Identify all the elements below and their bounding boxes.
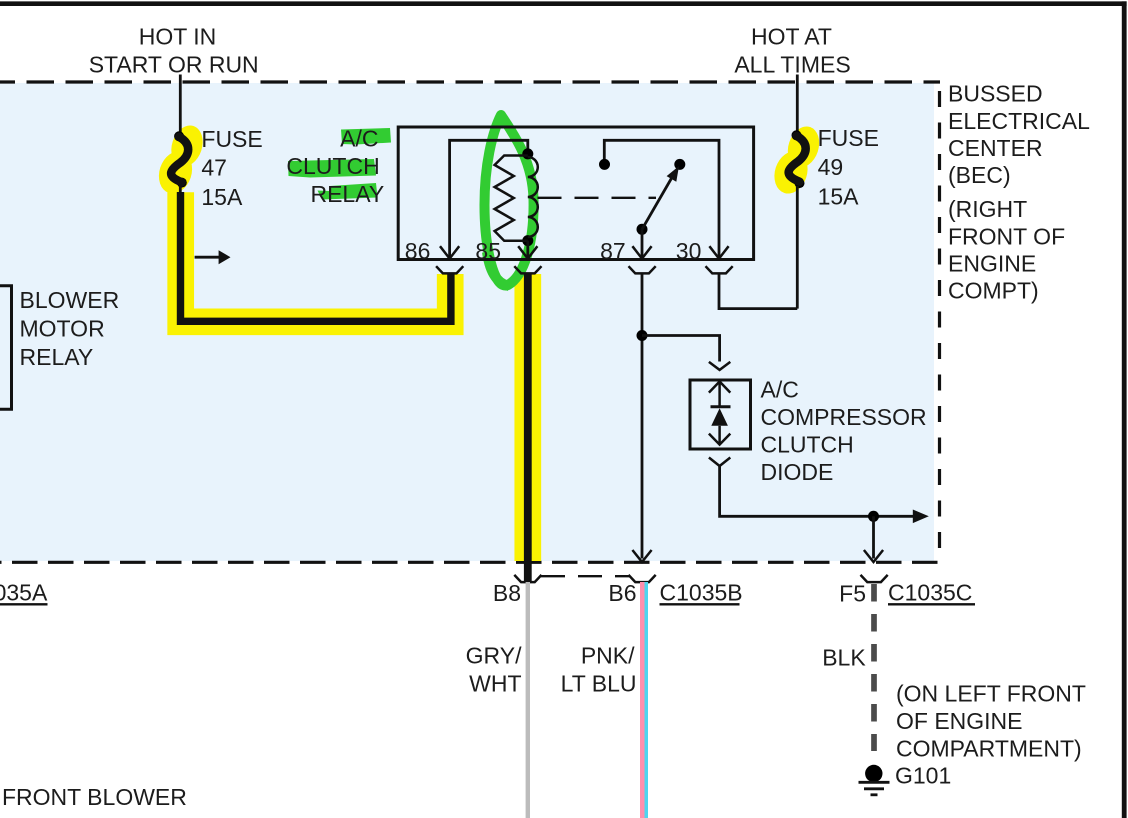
svg-text:FRONT BLOWER: FRONT BLOWER (2, 784, 187, 810)
svg-text:15A: 15A (818, 184, 860, 210)
svg-text:CLUTCH: CLUTCH (286, 153, 379, 179)
svg-text:FRONT OF: FRONT OF (948, 223, 1065, 249)
svg-text:49: 49 (818, 154, 844, 180)
svg-text:HOT AT: HOT AT (751, 24, 832, 50)
svg-text:COMPARTMENT): COMPARTMENT) (896, 735, 1082, 761)
svg-text:BUSSED: BUSSED (948, 81, 1043, 107)
svg-text:A/C: A/C (340, 126, 378, 152)
svg-text:(RIGHT: (RIGHT (948, 196, 1027, 222)
svg-text:85: 85 (475, 238, 501, 264)
svg-text:86: 86 (405, 238, 431, 264)
svg-text:CLUTCH: CLUTCH (761, 431, 854, 457)
svg-text:HOT IN: HOT IN (139, 24, 217, 50)
svg-text:A/C: A/C (761, 376, 799, 402)
svg-text:ALL TIMES: ALL TIMES (734, 52, 850, 78)
svg-text:START OR RUN: START OR RUN (89, 52, 259, 78)
svg-text:FUSE: FUSE (818, 125, 879, 151)
svg-text:RELAY: RELAY (310, 181, 384, 207)
svg-text:B8: B8 (493, 580, 521, 606)
svg-text:LT BLU: LT BLU (561, 670, 637, 696)
svg-text:ELECTRICAL: ELECTRICAL (948, 108, 1090, 134)
svg-text:COMPRESSOR: COMPRESSOR (761, 404, 927, 430)
svg-text:WHT: WHT (469, 670, 521, 696)
svg-text:B6: B6 (608, 580, 636, 606)
svg-text:C1035A: C1035A (0, 579, 48, 605)
svg-text:(ON LEFT FRONT: (ON LEFT FRONT (896, 680, 1086, 706)
svg-text:GRY/: GRY/ (466, 642, 522, 668)
svg-text:C1035B: C1035B (660, 580, 743, 606)
svg-text:PNK/: PNK/ (581, 642, 635, 668)
svg-text:47: 47 (201, 155, 227, 181)
svg-text:(BEC): (BEC) (948, 162, 1011, 188)
svg-text:87: 87 (600, 238, 626, 264)
svg-text:15A: 15A (201, 184, 243, 210)
svg-text:DIODE: DIODE (761, 459, 834, 485)
svg-text:30: 30 (676, 238, 702, 264)
svg-text:BLOWER: BLOWER (20, 287, 120, 313)
svg-text:F5: F5 (839, 581, 866, 607)
svg-text:FUSE: FUSE (201, 126, 262, 152)
svg-text:G101: G101 (895, 762, 951, 788)
svg-text:OF ENGINE: OF ENGINE (896, 708, 1023, 734)
svg-text:COMPT): COMPT) (948, 278, 1039, 304)
svg-text:CENTER: CENTER (948, 135, 1043, 161)
svg-text:MOTOR: MOTOR (20, 315, 105, 341)
svg-text:BLK: BLK (822, 644, 866, 670)
svg-text:RELAY: RELAY (20, 344, 94, 370)
svg-text:C1035C: C1035C (888, 580, 972, 606)
svg-text:ENGINE: ENGINE (948, 251, 1036, 277)
